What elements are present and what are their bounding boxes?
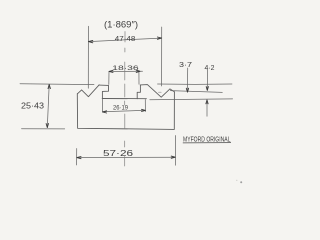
svg-text:18·36: 18·36 — [112, 65, 139, 72]
svg-text:4·2: 4·2 — [205, 63, 215, 72]
svg-text:(1·869″): (1·869″) — [104, 20, 138, 30]
svg-text:MYFORD ORIGINAL: MYFORD ORIGINAL — [183, 134, 231, 143]
svg-text:47·48: 47·48 — [115, 34, 136, 43]
svg-text:3·7: 3·7 — [179, 60, 192, 69]
svg-text:57·26: 57·26 — [103, 149, 134, 158]
svg-text:25·43: 25·43 — [21, 101, 44, 111]
svg-text:26·19: 26·19 — [113, 106, 129, 112]
